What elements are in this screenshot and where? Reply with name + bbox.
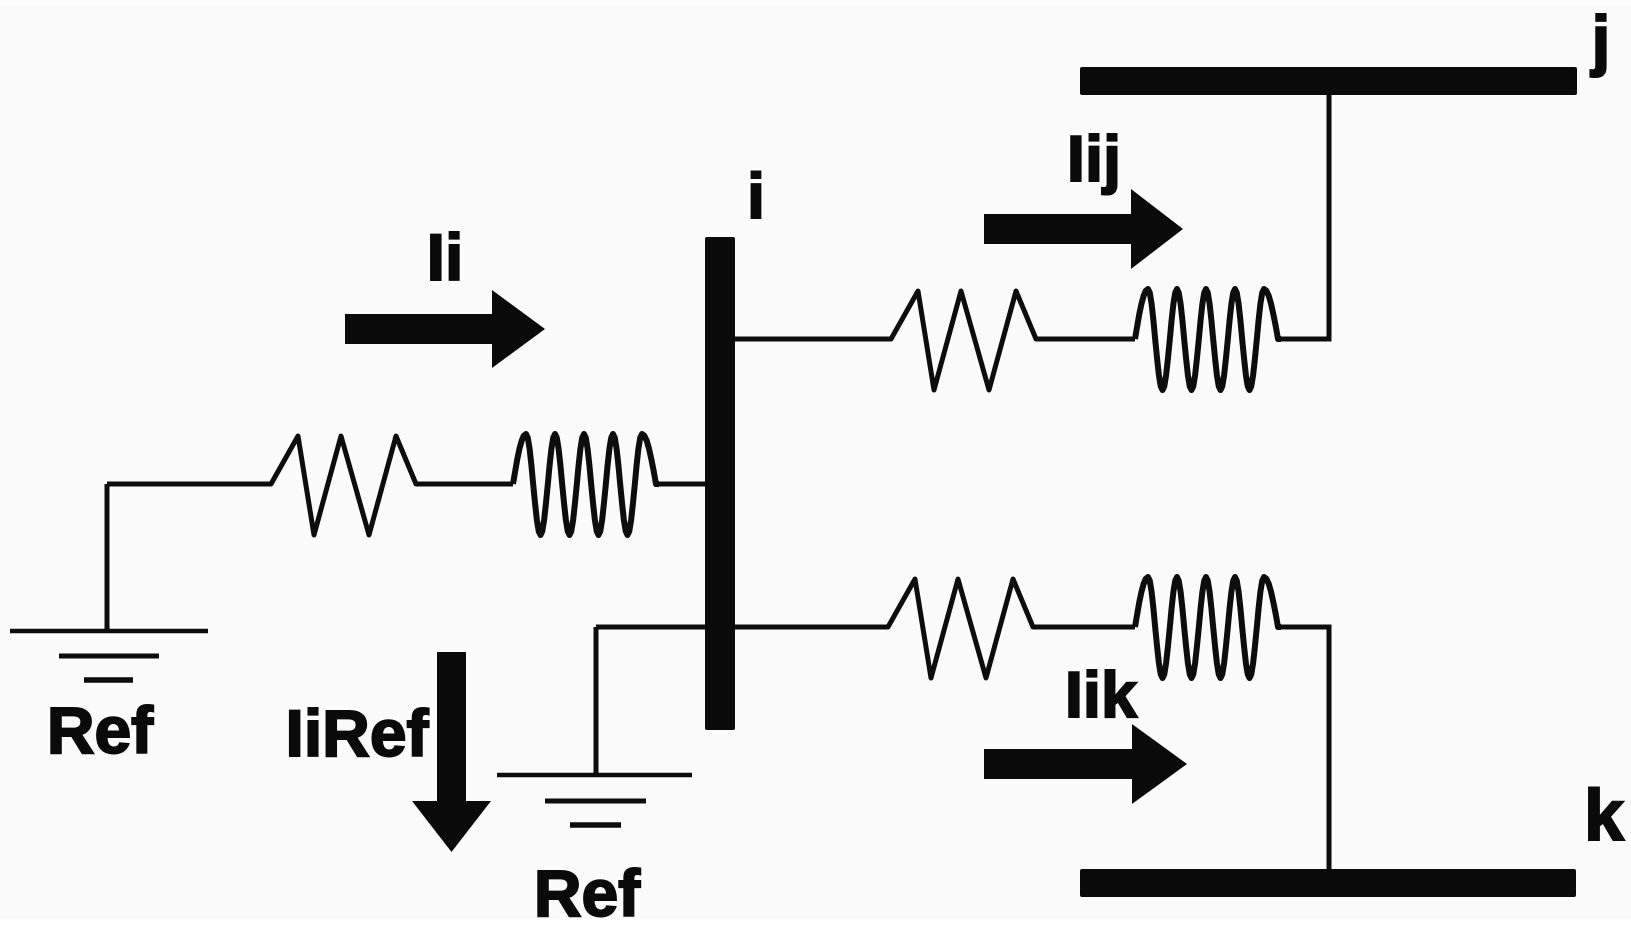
svg-text:Ref: Ref: [47, 693, 154, 767]
wire: [594, 627, 599, 775]
wire: [1033, 625, 1135, 630]
wire: [659, 482, 706, 487]
svg-text:k: k: [1584, 776, 1625, 856]
arrow Iij: [984, 189, 1183, 269]
bus j: [1080, 67, 1577, 95]
arrow Ii: [345, 290, 545, 368]
ground Ref left: [10, 631, 208, 680]
inductor branch i-j: [1135, 289, 1281, 390]
svg-text:Iik: Iik: [1065, 658, 1138, 731]
arrow Iik: [984, 724, 1187, 804]
bus k: [1080, 869, 1576, 897]
svg-text:j: j: [1590, 2, 1611, 78]
wire: [735, 625, 888, 630]
wire: [1036, 337, 1135, 342]
svg-text:i: i: [747, 160, 765, 232]
wire: [105, 484, 110, 631]
resistor branch i-j: [891, 291, 1036, 390]
inductor left branch: [513, 434, 659, 535]
resistor branch i-k: [888, 579, 1033, 678]
wire: [1281, 95, 1329, 339]
svg-text:IiRef: IiRef: [285, 696, 429, 770]
wire: [596, 625, 706, 630]
wire: [735, 337, 891, 342]
svg-text:Iij: Iij: [1067, 122, 1121, 195]
wire: [1281, 627, 1329, 869]
svg-text:Ii: Ii: [427, 220, 464, 294]
ground Ref center: [497, 775, 692, 825]
wire: [416, 482, 513, 487]
bus i: [705, 237, 735, 730]
svg-text:Ref: Ref: [534, 856, 641, 926]
inductor branch i-k: [1135, 577, 1281, 678]
resistor left branch: [271, 436, 416, 535]
wire: [107, 482, 271, 487]
arrow IiRef: [412, 652, 491, 852]
